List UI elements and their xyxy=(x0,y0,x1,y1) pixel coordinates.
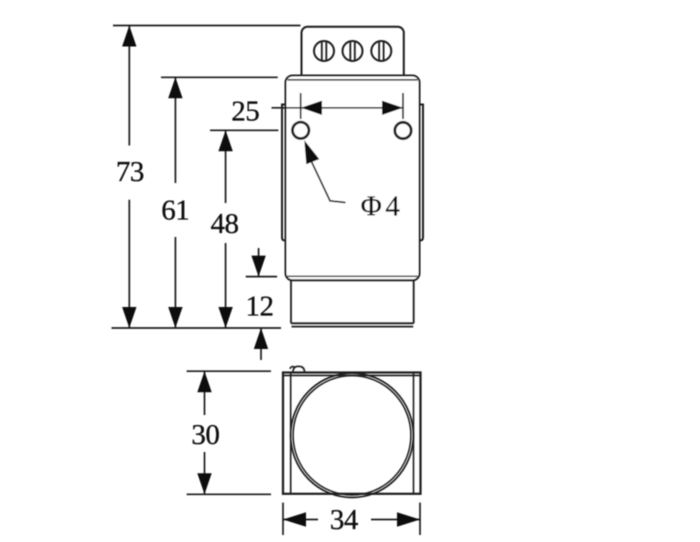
dim line 12 arrows shafts xyxy=(258,248,260,277)
svg-text:12: 12 xyxy=(246,291,274,323)
arrow 73 up xyxy=(122,26,136,47)
lens circle outer xyxy=(291,373,414,497)
arrow 61 up xyxy=(168,77,182,98)
arrow 48 up xyxy=(218,130,232,151)
dim 25 extension ticks xyxy=(300,93,302,119)
arrow 25 right xyxy=(382,101,403,115)
terminal screw 1 xyxy=(314,41,334,61)
arrow 25 left xyxy=(301,101,322,115)
leader phi4 xyxy=(311,160,346,203)
terminal screw 3 xyxy=(371,41,391,61)
extension line 48 xyxy=(210,129,278,131)
dim 34 extension ticks xyxy=(282,503,284,535)
body inner bottom line xyxy=(288,275,418,277)
square inner right line xyxy=(413,373,415,494)
arrow 34 right xyxy=(397,512,420,526)
right side flange xyxy=(420,105,424,241)
mounting hole right xyxy=(395,122,411,138)
mounting hole left xyxy=(293,122,309,138)
bottom narrow section xyxy=(291,280,414,327)
arrow 12 down (upper) xyxy=(251,256,265,277)
left side flange xyxy=(282,105,286,241)
square inner left line xyxy=(290,373,292,494)
dim line 73 xyxy=(128,26,130,146)
extension line bottom common xyxy=(112,327,282,329)
dim line 34 xyxy=(283,519,318,521)
dim line 30 xyxy=(204,371,206,415)
main body outline xyxy=(286,76,420,281)
arrow 48 down xyxy=(218,307,232,328)
svg-text:61: 61 xyxy=(161,195,189,227)
arrow 12 up (lower) xyxy=(254,328,268,349)
dim line 61 xyxy=(174,77,176,183)
arrow 73 down xyxy=(122,307,136,328)
extension tick 12 top xyxy=(246,276,277,278)
svg-text:73: 73 xyxy=(116,156,144,188)
terminal block xyxy=(302,27,404,82)
extension line 61 xyxy=(161,76,278,78)
svg-text:34: 34 xyxy=(330,504,359,536)
svg-text:25: 25 xyxy=(231,96,259,128)
terminal screw 2 xyxy=(343,41,363,61)
arrow 30 up xyxy=(197,371,211,392)
dim line 48 xyxy=(225,130,227,203)
dim line 25 xyxy=(272,107,404,109)
bottom view square xyxy=(283,373,421,494)
svg-text:Φ4: Φ4 xyxy=(361,191,404,223)
arrow phi4 leader xyxy=(304,140,319,164)
arrow 61 down xyxy=(168,307,182,328)
arrow 30 down xyxy=(197,473,211,494)
svg-text:48: 48 xyxy=(211,208,239,240)
square inner top line xyxy=(283,374,421,376)
small tab on square top xyxy=(290,366,305,372)
dim 30 extension lines xyxy=(187,370,271,372)
body inner top line xyxy=(288,79,418,81)
arrow 34 left xyxy=(283,512,306,526)
extension line top (73) xyxy=(113,25,301,27)
lens circle inner xyxy=(293,376,411,495)
svg-text:30: 30 xyxy=(191,419,219,451)
